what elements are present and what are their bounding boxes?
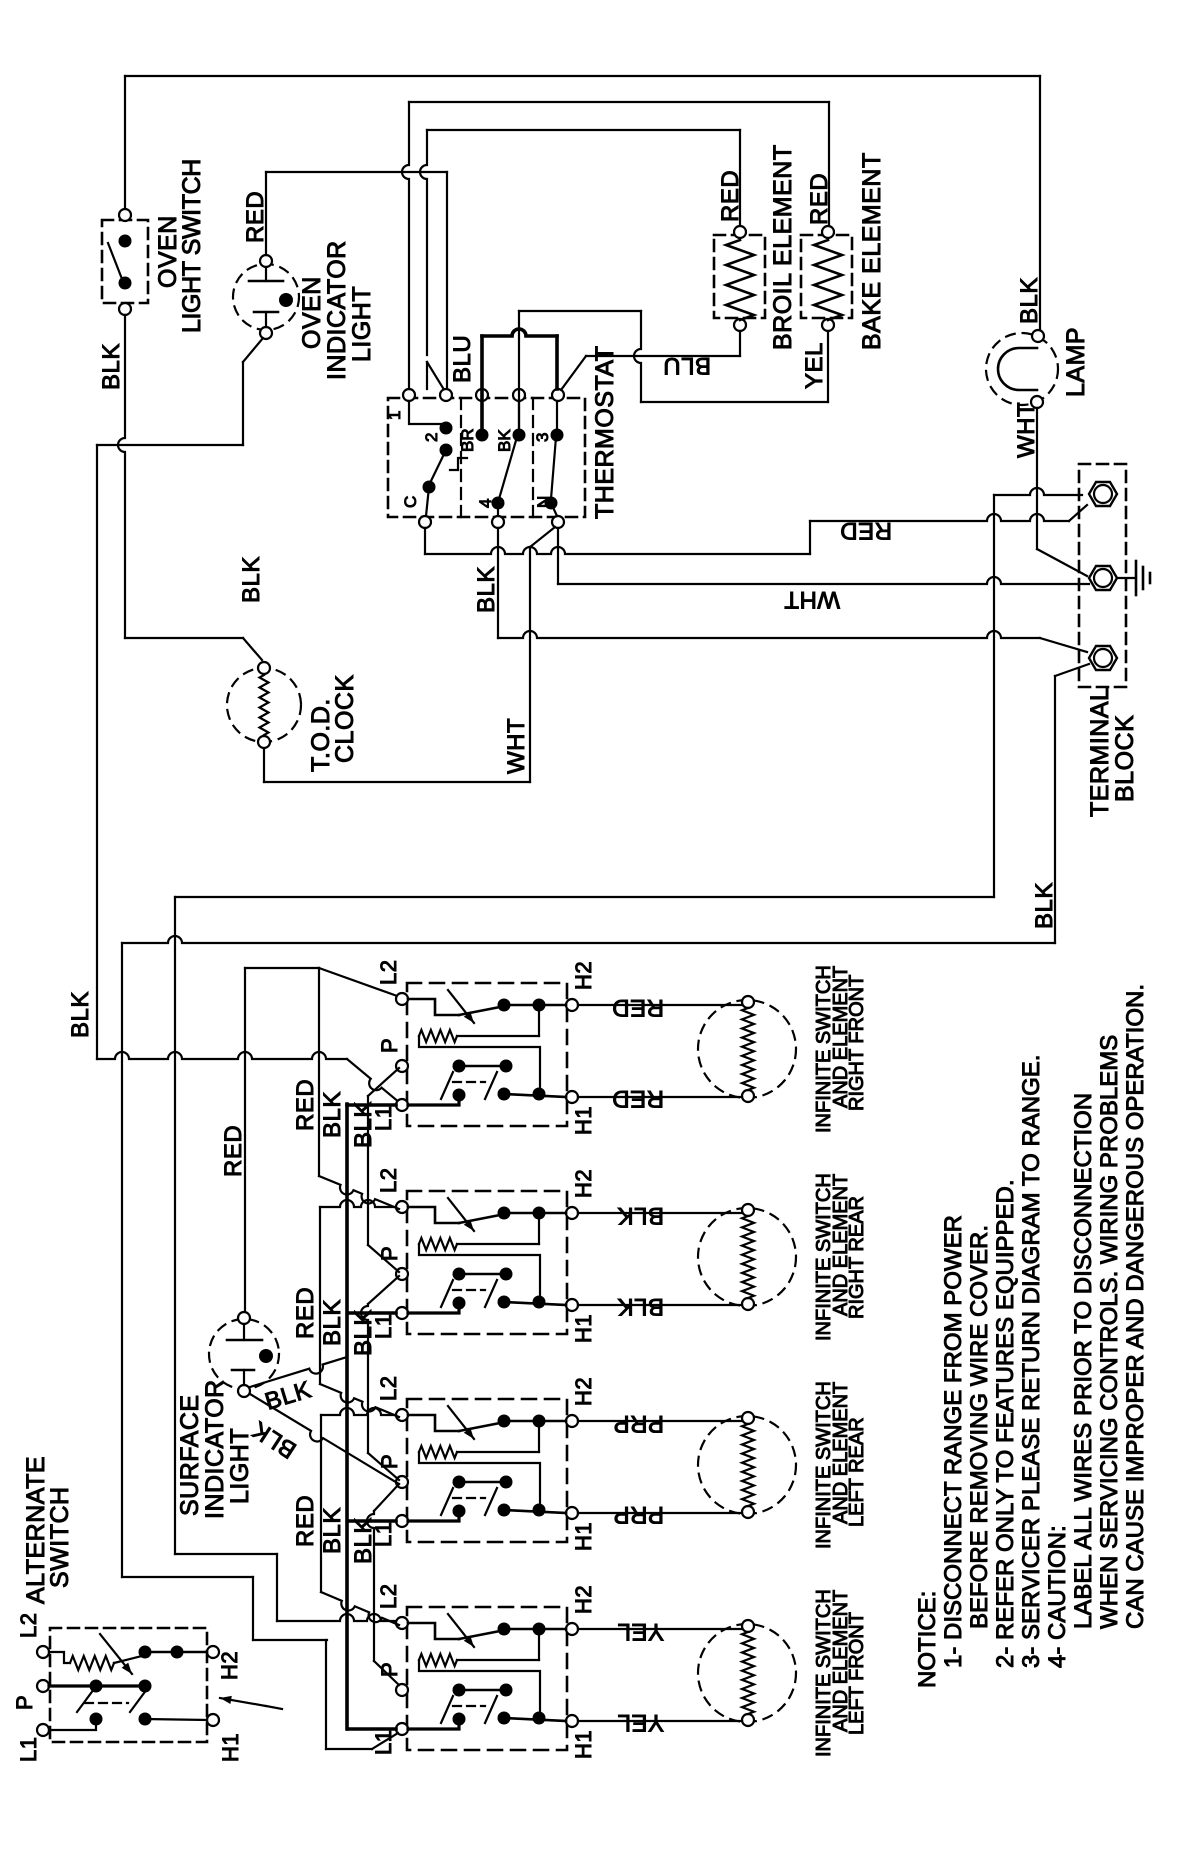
svg-text:H1: H1: [571, 1106, 596, 1135]
svg-text:RED: RED: [292, 1495, 319, 1547]
svg-text:WHT: WHT: [1013, 402, 1040, 458]
svg-text:PRP: PRP: [613, 1410, 664, 1437]
wire YEL BK to bake bottom: [518, 311, 520, 430]
svg-text:CLOCK: CLOCK: [331, 674, 359, 763]
terminal P switch4: [396, 1684, 408, 1696]
svg-text:BLK: BLK: [319, 1299, 346, 1346]
T.O.D. clock: [227, 668, 301, 742]
terminal S1 bottom: [119, 303, 131, 315]
svg-text:LAMP: LAMP: [1062, 327, 1090, 397]
terminal H2 switch3: [566, 1415, 578, 1427]
broil element: [714, 235, 765, 318]
switch4 resistor: [538, 1629, 540, 1660]
svg-text:WHT: WHT: [503, 718, 530, 774]
terminal L1 switch2: [396, 1307, 408, 1319]
surface indicator light DS2: [209, 1319, 279, 1389]
svg-text:H2: H2: [571, 1169, 596, 1198]
svg-text:CAN CAUSE IMPROPER AND DANGERO: CAN CAUSE IMPROPER AND DANGEROUS OPERATI…: [1122, 984, 1149, 1629]
wire H2 element4: [578, 1628, 742, 1630]
svg-text:BLK: BLK: [1016, 277, 1043, 324]
svg-text:BR: BR: [458, 428, 477, 452]
terminal L2 switch1: [396, 993, 408, 1005]
svg-text:BLK: BLK: [319, 1507, 346, 1554]
infinite switch S4 (LEFT REAR): [407, 1399, 567, 1542]
svg-text:RED: RED: [612, 1085, 664, 1112]
wire L1 bus to L1 switch1: [347, 1103, 396, 1107]
svg-text:SWITCH: SWITCH: [46, 1486, 74, 1588]
svg-text:RED: RED: [612, 994, 664, 1021]
svg-text:RED: RED: [717, 170, 744, 222]
wire thermostat 2 to broil top: [426, 362, 428, 389]
terminal L2 alt: [37, 1646, 49, 1658]
svg-text:BLK: BLK: [350, 1309, 377, 1356]
terminal DS2 top: [238, 1312, 250, 1324]
terminal thermostat 1: [403, 389, 415, 401]
wire BLK 4 to bottom bolt: [497, 528, 499, 638]
svg-text:BAKE ELEMENT: BAKE ELEMENT: [858, 152, 886, 350]
wire H2 element3: [578, 1420, 742, 1422]
terminal P switch1: [396, 1060, 408, 1072]
switch2 bimetal contact: [408, 1207, 459, 1223]
svg-text:P: P: [377, 1038, 402, 1053]
wire RED C to top bolt: [424, 528, 426, 554]
wire WHT N to clock: [530, 527, 555, 547]
wire BLK light to L1 bus: [250, 1357, 347, 1387]
wire P switch3 diag: [374, 1484, 399, 1511]
svg-text:2: 2: [422, 433, 441, 442]
svg-text:H2: H2: [571, 1585, 596, 1614]
wire L2 bus diag to L2 switch4: [321, 1592, 399, 1625]
wire WHT lamp to neutral bolt: [1036, 408, 1038, 549]
thermostat contact 1-2: [409, 401, 446, 424]
element LEFT FRONT: [698, 1624, 796, 1722]
terminal thermostat N: [552, 516, 564, 528]
svg-text:RED: RED: [806, 173, 833, 225]
svg-text:LIGHT: LIGHT: [348, 286, 376, 362]
wire L2 feed to switch 1: [245, 967, 319, 969]
terminal H1 switch4: [566, 1715, 578, 1727]
wire L1 bus to L1 switch2: [348, 1311, 396, 1315]
terminal element1 bottom: [742, 1090, 754, 1102]
L2 alternate switch: [50, 1628, 207, 1742]
terminal L1 switch4: [396, 1723, 408, 1735]
svg-text:RIGHT REAR: RIGHT REAR: [846, 1196, 868, 1319]
svg-text:H2: H2: [217, 1651, 242, 1680]
switch2 resistor: [538, 1213, 540, 1244]
wire BLK bolt3 bus: [1055, 664, 1089, 676]
terminal L1 switch1: [396, 1099, 408, 1111]
svg-text:BLK: BLK: [473, 566, 500, 613]
svg-text:H1: H1: [571, 1522, 596, 1551]
svg-text:4- CAUTION:: 4- CAUTION:: [1044, 1525, 1071, 1668]
svg-text:P: P: [377, 1246, 402, 1261]
svg-text:H2: H2: [571, 1377, 596, 1406]
wire WHT N to neutral bolt: [557, 528, 559, 584]
alt switch resistor: [49, 1652, 70, 1663]
infinite switch S2 (RIGHT FRONT): [407, 983, 567, 1126]
wire L1 bus (BLK heavy): [345, 1104, 349, 1729]
svg-text:PRP: PRP: [613, 1501, 664, 1528]
thermostat box: [388, 398, 585, 517]
wire P switch2 diag: [368, 1276, 399, 1304]
thermostat cam step: [450, 458, 467, 470]
infinite switch S3 (RIGHT REAR): [407, 1191, 567, 1334]
svg-text:LIGHT SWITCH: LIGHT SWITCH: [178, 159, 206, 333]
wire BLK top bolt feed: [994, 488, 1082, 495]
svg-text:N: N: [534, 496, 553, 508]
oven indicator light DS1: [233, 264, 299, 330]
terminal thermostat BR: [476, 389, 488, 401]
svg-text:LABEL ALL WIRES PRIOR TO DISCO: LABEL ALL WIRES PRIOR TO DISCONNECTION: [1070, 1093, 1097, 1629]
terminal broil top: [734, 226, 746, 238]
wire thermostat 1 to bake top: [402, 102, 409, 389]
wire BLK right bus to bolt: [993, 495, 995, 897]
terminal H2 alt: [207, 1646, 219, 1658]
svg-text:BLK: BLK: [617, 1202, 664, 1229]
svg-text:BLK: BLK: [617, 1293, 664, 1320]
wire left BLK bus: [96, 445, 98, 1059]
terminal H1 switch3: [566, 1507, 578, 1519]
infinite switch S5 (LEFT FRONT): [407, 1607, 567, 1750]
terminal L1 switch3: [396, 1515, 408, 1527]
terminal H2 switch4: [566, 1623, 578, 1635]
terminal element3 top: [742, 1412, 754, 1424]
terminal H2 switch1: [566, 999, 578, 1011]
svg-text:YEL: YEL: [617, 1709, 664, 1736]
wire L2 horiz to switch3: [321, 1408, 396, 1415]
svg-text:YEL: YEL: [801, 342, 828, 389]
svg-text:L2: L2: [376, 1168, 401, 1193]
switch1 bimetal contact: [408, 999, 459, 1015]
terminal lamp bottom: [1031, 396, 1043, 408]
wire BLK staircase to L1 switch4: [122, 1576, 253, 1578]
wire BLU BR to 3: [480, 336, 484, 430]
element LEFT REAR: [698, 1416, 796, 1514]
svg-text:RED: RED: [220, 1125, 247, 1177]
svg-text:INDICATOR: INDICATOR: [323, 240, 351, 380]
thermostat divider: [532, 398, 534, 517]
svg-text:BEFORE REMOVING WIRE COVER.: BEFORE REMOVING WIRE COVER.: [966, 1225, 993, 1629]
terminal element2 bottom: [742, 1298, 754, 1310]
terminal H1 switch2: [566, 1299, 578, 1311]
svg-text:BLK: BLK: [247, 1415, 301, 1463]
switch arm S1: [108, 243, 122, 279]
svg-text:WHEN SERVICING CONTROLS. WIRIN: WHEN SERVICING CONTROLS. WIRING PROBLEMS: [1096, 1035, 1123, 1629]
svg-text:BLOCK: BLOCK: [1111, 715, 1139, 802]
wire surface light top bus: [244, 968, 246, 1312]
terminal L2 switch4: [396, 1617, 408, 1629]
switch4 bimetal contact: [408, 1623, 459, 1639]
wire H2 element1: [578, 1004, 742, 1006]
wire main top BLK loop: [125, 75, 1040, 77]
wire BLK light to P switch3: [250, 1394, 399, 1484]
terminal H1 switch1: [566, 1091, 578, 1103]
terminal element4 bottom: [742, 1714, 754, 1726]
wire H1 element4: [578, 1720, 742, 1722]
svg-text:2- REFER ONLY TO FEATURES EQUI: 2- REFER ONLY TO FEATURES EQUIPPED.: [992, 1179, 1019, 1668]
switch4 contacts: [453, 1684, 466, 1697]
wire L2 bus segment A: [318, 968, 320, 1176]
svg-text:L1: L1: [16, 1737, 41, 1762]
switch3 resistor: [538, 1421, 540, 1452]
svg-text:YEL: YEL: [617, 1618, 664, 1645]
terminal thermostat C: [419, 516, 431, 528]
terminal DS1 top: [260, 255, 272, 267]
wire BLK L1 feed: [97, 1052, 347, 1059]
thermostat divider: [460, 398, 462, 517]
svg-text:BLK: BLK: [319, 1091, 346, 1138]
terminal broil bottom: [734, 319, 746, 331]
wire L2 bus diag to L2 switch3: [320, 1384, 399, 1417]
terminal element1 top: [742, 996, 754, 1008]
svg-text:BK: BK: [495, 429, 514, 452]
svg-text:BLK: BLK: [262, 1376, 315, 1416]
switch1 resistor: [538, 1005, 540, 1036]
terminal DS1 bottom: [260, 327, 272, 339]
terminal element2 top: [742, 1204, 754, 1216]
terminal H1 alt: [207, 1714, 219, 1726]
switch2 contacts: [453, 1268, 466, 1281]
svg-text:SURFACE: SURFACE: [176, 1394, 204, 1516]
terminal DS2 bottom: [238, 1385, 250, 1397]
svg-text:RED: RED: [292, 1287, 319, 1339]
svg-text:4: 4: [476, 499, 495, 508]
terminal P switch3: [396, 1476, 408, 1488]
terminal thermostat 3: [552, 389, 564, 401]
terminal thermostat 2: [440, 389, 452, 401]
svg-text:LEFT FRONT: LEFT FRONT: [846, 1612, 868, 1735]
terminal P alt: [37, 1680, 49, 1692]
svg-text:P: P: [377, 1454, 402, 1469]
alt switch arrow: [220, 1698, 266, 1706]
bolt terminal N: [1089, 566, 1117, 590]
lamp: [986, 333, 1058, 405]
svg-text:H1: H1: [571, 1730, 596, 1759]
svg-text:L2: L2: [16, 1613, 41, 1638]
terminal thermostat BK: [513, 389, 525, 401]
ground symbol: [1117, 577, 1136, 579]
terminal S1 top: [119, 209, 131, 221]
svg-text:H2: H2: [571, 961, 596, 990]
thermostat contact 3-N: [556, 401, 558, 430]
wire L1 bus to L1 switch4: [348, 1727, 396, 1731]
terminal element3 bottom: [742, 1506, 754, 1518]
switch1 contacts: [453, 1060, 466, 1073]
wire S1 bottom to clock (BLK): [118, 315, 125, 638]
wire DS1 bottom to left bus: [243, 338, 263, 362]
element RIGHT FRONT: [698, 1000, 796, 1098]
bolt terminal L2: [1089, 646, 1117, 670]
svg-text:LEFT REAR: LEFT REAR: [846, 1417, 868, 1527]
svg-text:BLK: BLK: [98, 343, 125, 390]
svg-text:3- SERVICER PLEASE RETURN DIAG: 3- SERVICER PLEASE RETURN DIAGRAM TO RAN…: [1018, 1055, 1045, 1668]
svg-text:1- DISCONNECT RANGE FROM POWER: 1- DISCONNECT RANGE FROM POWER: [940, 1215, 967, 1668]
thermostat contact BR: [481, 401, 483, 430]
switch3 contacts: [453, 1476, 466, 1489]
terminal element4 top: [742, 1620, 754, 1632]
wire P switch1 diag: [368, 1068, 399, 1096]
wire DS1 top to thermostat 2 (RED): [265, 172, 267, 255]
svg-text:P: P: [12, 1695, 37, 1710]
wire P diag to switch3: [368, 1453, 399, 1480]
svg-text:BLU: BLU: [449, 335, 476, 383]
svg-text:BLK: BLK: [67, 991, 94, 1038]
terminal P switch2: [396, 1268, 408, 1280]
svg-text:H1: H1: [571, 1314, 596, 1343]
svg-text:OVEN: OVEN: [298, 276, 326, 349]
wire L2 bus segment C: [320, 1415, 322, 1592]
svg-text:3: 3: [533, 433, 552, 442]
svg-text:BROIL ELEMENT: BROIL ELEMENT: [769, 144, 797, 350]
svg-text:L2: L2: [376, 1584, 401, 1609]
wire H2 element2: [578, 1212, 742, 1214]
terminal clock bottom: [258, 736, 270, 748]
terminal L1 alt: [37, 1724, 49, 1736]
svg-text:THERMOSTAT: THERMOSTAT: [591, 345, 619, 519]
wire L1 bus to L1 switch3: [348, 1519, 396, 1523]
bake element: [801, 235, 852, 318]
terminal H2 switch2: [566, 1207, 578, 1219]
wire L2 bus segment B: [319, 1207, 321, 1384]
svg-text:H1: H1: [218, 1733, 243, 1762]
wire H1 element2: [578, 1304, 742, 1306]
terminal clock top: [258, 662, 270, 674]
terminal L2 switch2: [396, 1201, 408, 1213]
wire P diag to switch4: [374, 1661, 399, 1685]
wire P diag to switch2: [368, 1245, 399, 1272]
wire L2 horiz to switch2: [320, 1200, 396, 1207]
svg-text:L2: L2: [376, 1376, 401, 1401]
terminal thermostat 4: [492, 516, 504, 528]
svg-text:1: 1: [385, 411, 404, 420]
terminal block box: [1079, 464, 1126, 687]
svg-text:RIGHT FRONT: RIGHT FRONT: [846, 975, 868, 1111]
svg-text:INDICATOR: INDICATOR: [201, 1379, 229, 1519]
terminal bake bottom: [822, 319, 834, 331]
wire H1 element1: [578, 1096, 742, 1098]
svg-text:WHT: WHT: [784, 586, 840, 613]
wire L2 bus diag to L2 switch2: [319, 1176, 399, 1209]
wire BLU broil bottom to thermostat 3: [739, 331, 741, 356]
wire BLK staircase to L2 switch4: [175, 1553, 277, 1555]
element RIGHT REAR: [698, 1208, 796, 1306]
svg-text:BLU: BLU: [663, 352, 711, 379]
svg-text:BLK: BLK: [350, 1101, 377, 1148]
alt switch P contacts: [49, 1684, 145, 1687]
thermostat contact BK-4: [518, 401, 520, 430]
svg-text:BLK: BLK: [1031, 882, 1058, 929]
bolt terminal L1: [1089, 482, 1117, 506]
svg-text:NOTICE:: NOTICE:: [914, 1591, 941, 1688]
terminal L2 switch3: [396, 1409, 408, 1421]
terminal bake top: [822, 226, 834, 238]
svg-text:TERMINAL: TERMINAL: [1086, 687, 1114, 817]
svg-text:RED: RED: [292, 1079, 319, 1131]
svg-text:C: C: [401, 496, 420, 508]
terminal lamp top: [1032, 330, 1044, 342]
wire H1 element3: [578, 1512, 742, 1514]
switch3 bimetal contact: [408, 1415, 459, 1431]
svg-text:L2: L2: [376, 960, 401, 985]
svg-text:BLK: BLK: [238, 556, 265, 603]
svg-text:RED: RED: [840, 517, 892, 544]
oven light switch S1: [102, 220, 148, 303]
